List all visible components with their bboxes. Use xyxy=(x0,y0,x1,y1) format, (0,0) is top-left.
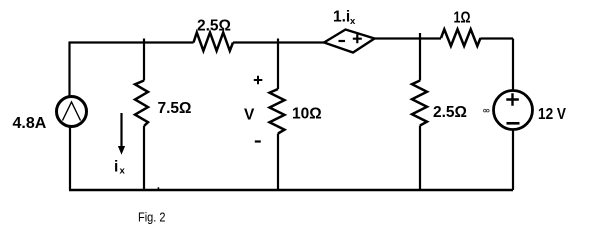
current arrow ix xyxy=(120,113,122,147)
junction tick on bottom rail xyxy=(157,187,159,190)
svg-text:2.5Ω: 2.5Ω xyxy=(433,104,467,121)
svg-text:2.5Ω: 2.5Ω xyxy=(197,17,231,34)
resistor R 2.5ohm vertical xyxy=(412,81,427,126)
svg-text:10Ω: 10Ω xyxy=(292,106,322,123)
plus label above V xyxy=(254,76,262,85)
arrow chevron inside current source xyxy=(63,102,81,121)
wire bottom rail xyxy=(69,189,513,191)
wire branch x=420 lower xyxy=(419,126,421,191)
svg-text:Fig. 2: Fig. 2 xyxy=(138,211,166,225)
wire right vertical lower xyxy=(512,129,514,190)
wire branch x=420 upper with overshoot xyxy=(419,33,421,81)
minus sign inside source xyxy=(507,122,520,125)
wire branch x=278 lower xyxy=(277,134,279,191)
wire top rail far right xyxy=(481,37,514,39)
wire right vertical upper xyxy=(512,39,514,92)
tiny artifact mark left of source xyxy=(484,109,487,112)
minus label below V xyxy=(255,140,261,142)
resistor R 1ohm horizontal xyxy=(441,29,481,46)
svg-text:V: V xyxy=(244,107,255,124)
wire branch x=144 upper with overshoot xyxy=(143,39,145,81)
wire left vertical upper xyxy=(68,42,70,98)
resistor R 7.5ohm vertical xyxy=(135,81,148,127)
voltage source V1 12V circle xyxy=(494,91,533,130)
wire branch x=278 upper with overshoot xyxy=(277,39,279,90)
current source I1 4.8A circle xyxy=(57,97,87,127)
svg-text:12 V: 12 V xyxy=(538,106,567,123)
wire top rail left segment xyxy=(69,41,194,43)
wire left vertical lower xyxy=(69,125,71,190)
plus sign inside source xyxy=(506,93,519,106)
svg-text:1Ω: 1Ω xyxy=(454,9,471,26)
wire branch x=144 lower xyxy=(143,126,145,190)
minus sign inside diamond xyxy=(339,40,346,42)
svg-text:x: x xyxy=(120,166,126,177)
dependent source U1 diamond 1.ix xyxy=(324,30,375,53)
wire top rail right of diamond xyxy=(375,37,442,39)
resistor R 10ohm vertical xyxy=(270,89,285,134)
svg-text:x: x xyxy=(350,16,356,27)
wire top rail middle segment xyxy=(233,41,324,43)
svg-text:7.5Ω: 7.5Ω xyxy=(158,100,192,117)
resistor R 2.5ohm horizontal xyxy=(194,33,234,51)
svg-text:i: i xyxy=(114,159,118,176)
svg-text:4.8A: 4.8A xyxy=(13,115,47,132)
plus sign inside diamond xyxy=(353,34,362,43)
svg-text:1.i: 1.i xyxy=(333,9,350,26)
